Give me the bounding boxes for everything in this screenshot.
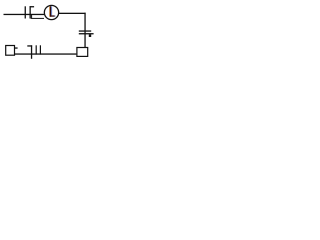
wire	[31, 15, 32, 19]
capacitor C2	[79, 30, 94, 37]
crystal Y1	[27, 45, 41, 59]
connector J1	[6, 46, 18, 56]
capacitor C1	[25, 6, 34, 18]
wire	[15, 53, 76, 54]
wire	[84, 13, 85, 47]
wire	[31, 18, 44, 19]
lamp L1	[44, 5, 58, 19]
connector J2	[77, 48, 88, 57]
wire	[4, 14, 45, 15]
wire	[59, 13, 86, 14]
